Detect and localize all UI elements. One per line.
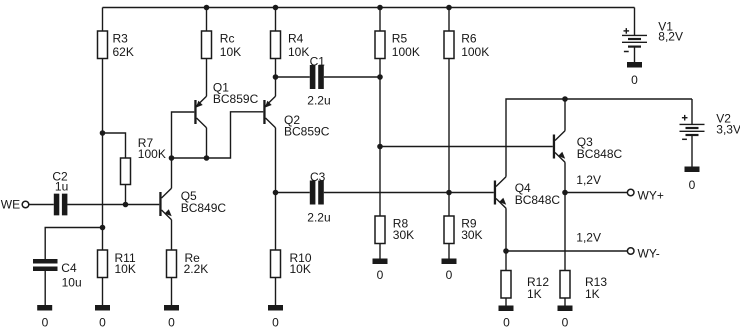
label 0 R13: [562, 316, 569, 330]
svg-text:10K: 10K: [290, 262, 311, 276]
node rail-R6: [446, 5, 452, 11]
label V1: [658, 20, 683, 44]
resistor R3: [98, 31, 108, 59]
svg-text:BC859C: BC859C: [213, 92, 259, 106]
label Q4: [515, 181, 561, 207]
capacitor C1: [310, 65, 324, 89]
label C1: [307, 54, 330, 107]
resistor R10: [271, 250, 281, 278]
svg-text:10K: 10K: [288, 45, 309, 59]
label R10: [290, 251, 312, 276]
wire Q3 emitter to R13: [564, 162, 566, 270]
ground below R13: [558, 306, 573, 312]
svg-text:8,2V: 8,2V: [658, 30, 683, 44]
label Q3: [577, 135, 623, 161]
terminal WY-: [627, 248, 634, 255]
label R6: [461, 31, 489, 59]
label WY-: [638, 246, 660, 260]
svg-text:62K: 62K: [113, 45, 134, 59]
V2 polarity marks: [682, 115, 688, 139]
svg-text:R6: R6: [461, 31, 477, 45]
wire V2 to ground: [691, 135, 693, 167]
wire V1 to ground: [634, 47, 636, 62]
resistor R4: [271, 31, 281, 59]
ground below R11: [95, 305, 110, 311]
battery V1: [622, 35, 647, 46]
svg-text:1,2V: 1,2V: [576, 230, 601, 244]
svg-text:100K: 100K: [138, 147, 166, 161]
svg-text:2.2K: 2.2K: [184, 262, 209, 276]
svg-text:1K: 1K: [585, 287, 600, 301]
svg-text:10u: 10u: [62, 275, 82, 289]
svg-text:C3: C3: [310, 170, 326, 184]
svg-text:R4: R4: [288, 31, 304, 45]
wire C3 to Q4 base: [324, 192, 494, 194]
wire V2 lead: [691, 99, 693, 124]
wire Q2 node to C3: [276, 192, 310, 194]
label WY+: [638, 188, 664, 202]
svg-text:0: 0: [689, 178, 696, 192]
wire WY+ output: [565, 192, 627, 194]
wire R5 column down to R8: [379, 59, 381, 217]
svg-text:3,3V: 3,3V: [716, 123, 740, 137]
node Q4 emitter: [503, 248, 509, 254]
wire Q4 collector riser: [506, 99, 692, 177]
label Re: [184, 251, 209, 276]
svg-text:100K: 100K: [392, 45, 420, 59]
wire R6 column down to R9: [448, 59, 450, 217]
ground below Re: [164, 305, 179, 311]
label R7: [138, 136, 166, 161]
wire R9 to ground: [448, 244, 450, 259]
label 1,2V lower: [576, 230, 601, 244]
node rail-R5: [377, 5, 383, 11]
node R3-R7: [100, 130, 106, 136]
wire C4 branch: [45, 228, 102, 260]
svg-text:WE: WE: [1, 198, 20, 212]
svg-text:1,2V: 1,2V: [576, 173, 601, 187]
resistor R5: [375, 31, 385, 59]
resistor R9: [444, 216, 454, 244]
transistor Q2: [263, 96, 275, 127]
svg-text:WY-: WY-: [638, 246, 660, 260]
wire R11 to ground: [102, 278, 104, 306]
label V2: [716, 112, 740, 137]
wire R3 to R7 jog: [103, 133, 126, 158]
svg-text:BC848C: BC848C: [577, 147, 623, 161]
label R3: [113, 31, 134, 59]
wire Q4 emitter: [505, 208, 507, 270]
label Q2: [284, 113, 330, 139]
wire Q5 collector: [171, 158, 173, 188]
wire R4 to C1: [276, 76, 310, 78]
wire top supply rail: [103, 7, 635, 9]
label WE: [1, 198, 20, 212]
wire R7 bottom lead: [125, 185, 127, 205]
wire Q2 collector to R10: [275, 128, 277, 250]
wire Rc to Q1 emitter: [206, 59, 208, 97]
label 0 R11: [99, 316, 106, 330]
ground below C4: [37, 305, 52, 311]
wire WY- output: [506, 250, 627, 252]
ground below R10: [268, 305, 283, 311]
label R9: [461, 217, 482, 242]
label R5: [392, 31, 420, 59]
ground below V2: [685, 167, 700, 173]
svg-text:1u: 1u: [55, 180, 68, 194]
wire R13 to ground: [564, 298, 566, 306]
svg-text:0: 0: [377, 268, 384, 282]
node Q1 collector: [204, 155, 210, 161]
wire Q1 base: [172, 112, 195, 158]
wire Rc top lead: [206, 8, 208, 32]
svg-text:2.2u: 2.2u: [307, 211, 330, 225]
svg-text:0: 0: [446, 268, 453, 282]
V1 polarity marks: [624, 28, 630, 51]
node Q2-C3: [273, 190, 279, 196]
label 0 V1: [631, 73, 638, 87]
resistor R8: [375, 216, 385, 244]
label R12: [527, 275, 549, 301]
ground below V1: [627, 62, 642, 68]
terminal WY+: [627, 189, 634, 196]
svg-text:R3: R3: [113, 31, 129, 45]
node rail-Rc: [204, 5, 210, 11]
node rail-R4: [273, 5, 279, 11]
battery V2: [680, 124, 705, 135]
node R3-C4: [100, 225, 106, 231]
label 0 Re: [168, 316, 175, 330]
svg-text:30K: 30K: [393, 228, 414, 242]
wire R3 top lead: [102, 8, 104, 32]
wire C1 to R5 node: [324, 76, 380, 78]
node C1-R5: [377, 74, 383, 80]
wire R8 to ground: [379, 244, 381, 259]
wire C4 to ground: [44, 271, 46, 305]
label Rc: [220, 31, 241, 59]
resistor R11: [98, 250, 108, 278]
wire R10 to ground: [275, 278, 277, 306]
svg-text:0: 0: [272, 316, 279, 330]
node Q3 collector: [562, 96, 568, 102]
resistor R7: [121, 158, 131, 185]
node R4-C1: [273, 74, 279, 80]
resistor R12: [501, 271, 511, 299]
transistor Q5: [159, 188, 171, 219]
wire Q3 collector: [564, 99, 566, 131]
ground below R8: [373, 259, 388, 265]
svg-text:0: 0: [42, 316, 49, 330]
transistor Q4: [494, 177, 506, 208]
resistor Re: [167, 250, 177, 278]
svg-text:0: 0: [562, 316, 569, 330]
resistor R13: [560, 271, 570, 299]
label C4: [61, 261, 81, 290]
label 0 R10: [272, 316, 279, 330]
svg-text:BC848C: BC848C: [515, 193, 561, 207]
wire WE to C2: [29, 204, 54, 206]
svg-text:0: 0: [168, 316, 175, 330]
label 0 R9: [446, 268, 453, 282]
wire C2 to Q5 base: [67, 204, 159, 206]
capacitor C4: [33, 259, 58, 271]
svg-text:2.2u: 2.2u: [307, 93, 330, 107]
transistor Q1: [194, 96, 206, 127]
node C3-R9: [446, 190, 452, 196]
svg-text:C1: C1: [310, 54, 326, 68]
wire R4 top lead: [275, 8, 277, 32]
node Q3 emitter: [562, 190, 568, 196]
wire R6 top lead: [448, 8, 450, 32]
svg-text:BC849C: BC849C: [181, 201, 227, 215]
svg-text:BC859C: BC859C: [284, 125, 330, 139]
wire V1 lead: [634, 8, 636, 36]
svg-text:10K: 10K: [115, 262, 136, 276]
wire R12 to ground: [505, 298, 507, 306]
svg-text:1K: 1K: [527, 287, 542, 301]
label R8: [393, 217, 414, 242]
wire Q1 collector: [206, 128, 208, 158]
wire Re to ground: [171, 278, 173, 306]
svg-text:Rc: Rc: [220, 31, 235, 45]
svg-text:R5: R5: [392, 31, 408, 45]
label 0 V2: [689, 178, 696, 192]
wire Q3 base: [380, 146, 553, 148]
terminal WE: [22, 201, 29, 208]
svg-text:100K: 100K: [461, 45, 489, 59]
svg-text:10K: 10K: [220, 45, 241, 59]
label R11: [115, 251, 136, 276]
transistor Q3: [553, 131, 565, 162]
label C3: [307, 170, 330, 225]
label Q5: [181, 189, 227, 215]
label 0 R8: [377, 268, 384, 282]
wire R4 to Q2 emitter: [275, 59, 277, 97]
node R7-base: [123, 202, 129, 208]
svg-text:C4: C4: [61, 261, 77, 275]
ground below R9: [442, 259, 457, 265]
label C2: [52, 169, 68, 193]
resistor R6: [444, 31, 454, 59]
label 1,2V upper: [576, 173, 601, 187]
node Q5 collector: [169, 155, 175, 161]
svg-text:30K: 30K: [461, 228, 482, 242]
label 0 R12: [503, 316, 510, 330]
wire R5 top lead: [379, 8, 381, 32]
label Q1: [213, 81, 259, 107]
label R13: [585, 275, 607, 301]
label 0 C4: [42, 316, 49, 330]
label R4: [288, 31, 309, 59]
node R5-Q3 base: [377, 144, 383, 150]
svg-text:0: 0: [631, 73, 638, 87]
wire R3 column down to R11: [102, 59, 104, 251]
ground below R12: [499, 306, 514, 312]
resistor Rc: [202, 31, 212, 59]
wire mirror node: [172, 112, 264, 158]
svg-text:0: 0: [503, 316, 510, 330]
svg-text:WY+: WY+: [638, 188, 664, 202]
svg-text:0: 0: [99, 316, 106, 330]
capacitor C3: [310, 181, 324, 205]
capacitor C2: [54, 194, 68, 216]
wire Q5 emitter to Re: [171, 220, 173, 250]
